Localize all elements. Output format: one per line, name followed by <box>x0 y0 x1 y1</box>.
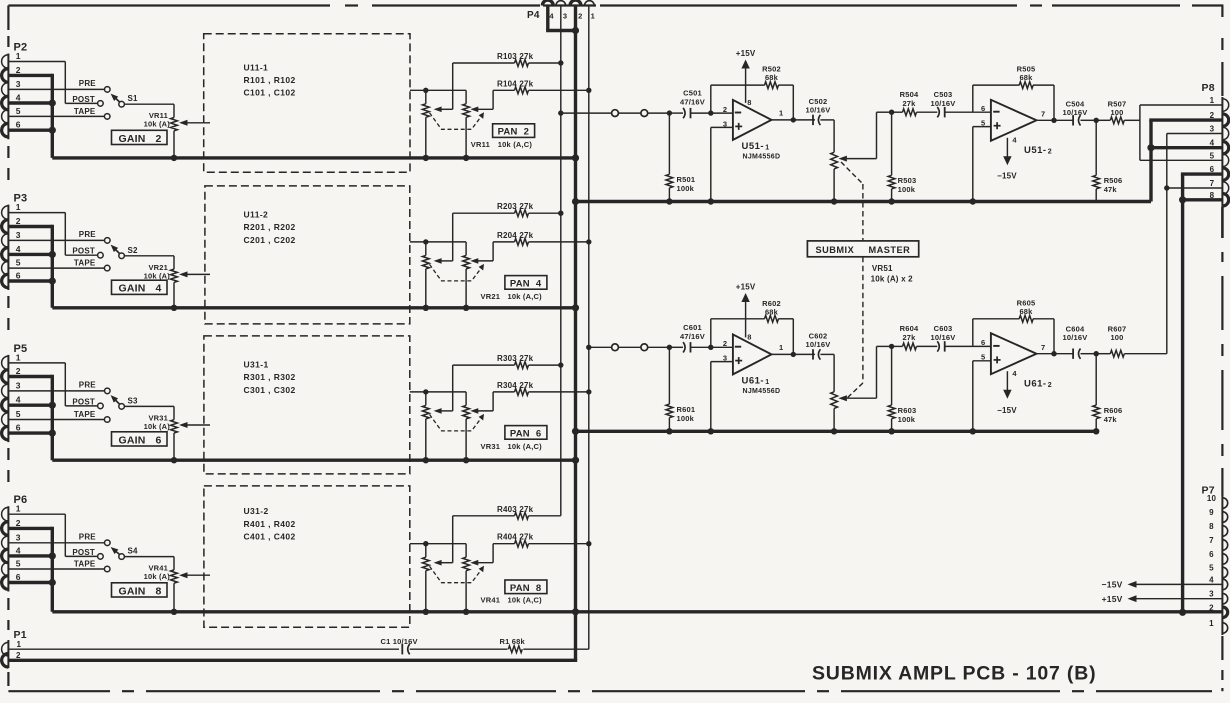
svg-text:U31-1: U31-1 <box>244 360 269 370</box>
label P7 pin 6 <box>1209 550 1214 559</box>
svg-text:100k: 100k <box>898 415 916 424</box>
label P8 pin 5 <box>1210 151 1215 160</box>
svg-text:6: 6 <box>981 104 985 113</box>
label C503 value <box>931 99 956 108</box>
node U51-1 output <box>791 117 796 122</box>
svg-text:TAPE: TAPE <box>74 259 96 268</box>
label U61-1 part no. <box>743 388 781 395</box>
label R301 , R302 <box>244 372 296 382</box>
svg-text:6: 6 <box>1209 550 1214 559</box>
svg-text:2: 2 <box>524 127 529 138</box>
svg-text:10/16V: 10/16V <box>806 340 831 349</box>
svg-text:SUBMIX: SUBMIX <box>816 245 855 255</box>
svg-text:4: 4 <box>16 93 21 103</box>
junction pan pot1 / ch1 ground bus <box>423 155 429 161</box>
border right (dash-dot) <box>1221 6 1223 692</box>
capacitor C602 10/16V <box>813 349 834 359</box>
wire stage1 ground bus <box>576 200 1152 203</box>
label C501 <box>683 89 702 98</box>
label U61-1 pin 1 <box>779 343 783 352</box>
svg-text:47/16V: 47/16V <box>680 98 705 107</box>
wire P5 pin5 to TAPE contact <box>8 419 104 421</box>
junction P4 pin4/ground bus <box>572 27 579 34</box>
capacitor C503 10/16V <box>937 107 991 117</box>
label GAIN 8 box <box>112 583 168 598</box>
label P8 pin 7 <box>1210 179 1215 188</box>
junction R501 / ground <box>666 198 672 204</box>
svg-text:6: 6 <box>1210 165 1215 174</box>
label P6 pin 4 <box>16 545 21 555</box>
junction R503 / ground <box>888 198 894 204</box>
label R604 value <box>902 333 916 342</box>
wire P2 pin3 to PRE contact <box>8 88 104 90</box>
junction pan pot2 / ch4 ground bus <box>463 609 469 615</box>
svg-text:R201 , R202: R201 , R202 <box>244 222 296 232</box>
svg-text:R203 27k: R203 27k <box>497 202 534 211</box>
label U51-2 plus <box>994 122 1001 129</box>
label -15V stage1 <box>997 172 1017 181</box>
svg-text:C603: C603 <box>934 324 953 333</box>
label C504 value <box>1063 108 1088 117</box>
wire S1 pole to VR11 <box>124 104 174 117</box>
switch S4 TAPE contact <box>104 566 110 572</box>
wire P2 pin1 to POST contact <box>8 62 97 104</box>
svg-text:8: 8 <box>536 583 541 594</box>
label U31-1 <box>244 360 269 370</box>
svg-text:5: 5 <box>16 559 21 569</box>
junction VR31 / ch3 ground bus <box>171 457 177 463</box>
switch S2 blade <box>111 245 120 254</box>
label P1 pin 1 <box>17 640 22 649</box>
resistor R304 27k <box>475 389 589 411</box>
svg-text:C201 , C202: C201 , C202 <box>244 235 296 245</box>
svg-text:PAN: PAN <box>510 278 530 289</box>
wire stage1 node to pin2 <box>711 112 733 114</box>
gang line VR21 (dashed) <box>430 264 485 281</box>
label PAN 2 box <box>493 124 535 138</box>
connector P2 <box>2 54 9 140</box>
svg-text:TAPE: TAPE <box>74 107 96 116</box>
resistor R601 100k <box>666 347 673 431</box>
label -15V P7 <box>1102 580 1123 590</box>
label PRE ch1 <box>79 79 97 88</box>
label C1 value <box>381 637 418 646</box>
wire P2 pin5 to TAPE contact <box>8 115 104 117</box>
svg-text:R104 27k: R104 27k <box>497 79 534 88</box>
resistor R506 47k <box>1093 120 1100 201</box>
svg-text:POST: POST <box>72 247 95 256</box>
label S3 <box>128 396 139 405</box>
switch S4 blade <box>111 547 120 555</box>
svg-text:1: 1 <box>17 640 22 649</box>
svg-text:R103 27k: R103 27k <box>497 52 534 61</box>
wire P7 pin4 -15V <box>1128 581 1223 588</box>
junction pan pot1 / ch3 ground bus <box>423 457 429 463</box>
svg-text:VR51: VR51 <box>872 264 893 273</box>
svg-text:S3: S3 <box>128 396 139 405</box>
label R605 <box>1017 299 1036 308</box>
label U61-1 <box>742 375 765 386</box>
junction left bus / stage1 input <box>558 110 563 115</box>
svg-text:4: 4 <box>16 395 21 405</box>
svg-text:2: 2 <box>1209 603 1214 612</box>
wire stage2 input from bus <box>589 346 670 348</box>
label +15V stage1 <box>736 49 756 58</box>
svg-text:U61-: U61- <box>1024 379 1047 390</box>
svg-text:5: 5 <box>1210 151 1215 160</box>
label R602 value <box>765 307 779 316</box>
junction VR41 / ch4 ground bus <box>171 609 177 615</box>
label U51-1 suffix <box>765 144 769 151</box>
svg-text:10k (A): 10k (A) <box>144 271 171 280</box>
label U61-2 pin 7 <box>1041 343 1045 352</box>
svg-text:4: 4 <box>16 244 21 254</box>
label VR41 <box>148 564 168 573</box>
svg-text:68k: 68k <box>765 307 779 316</box>
label R601 <box>677 405 696 414</box>
svg-text:PRE: PRE <box>79 381 97 390</box>
svg-text:S1: S1 <box>128 94 139 103</box>
switch S1 pole <box>119 101 125 107</box>
junction P8 ground riser / bottom bus <box>1179 609 1186 616</box>
label POST ch4 <box>72 548 95 557</box>
svg-text:1: 1 <box>779 343 783 352</box>
label U51-2 minus <box>993 111 999 113</box>
svg-text:R1 68k: R1 68k <box>500 637 526 646</box>
resistor R404 27k <box>475 540 589 562</box>
potentiometer VR21 section B (pan right) <box>463 242 479 308</box>
junction U51-1 pin3 / ground <box>708 198 714 204</box>
svg-text:+15V: +15V <box>1102 594 1123 604</box>
label P6 pin 6 <box>16 572 21 582</box>
svg-text:6: 6 <box>16 423 21 433</box>
label P5 pin 5 <box>16 409 21 419</box>
wire ch1 pan input <box>410 89 466 91</box>
capacitor C1 10/16V <box>402 644 507 654</box>
junction pan pot2 / ch1 ground bus <box>463 155 469 161</box>
label U51-1 pin 2 <box>723 105 727 114</box>
wire left mix bus (P4 pin 3) <box>560 6 562 516</box>
switch S4 pole <box>119 554 125 560</box>
svg-text:2: 2 <box>578 12 582 21</box>
label P8 pin 1 <box>1210 96 1215 105</box>
svg-text:2: 2 <box>723 105 727 114</box>
label U11-2 <box>244 210 269 220</box>
junction R303 / left bus <box>558 362 563 367</box>
label R303 27k <box>497 354 534 363</box>
svg-text:R304 27k: R304 27k <box>497 381 534 390</box>
svg-text:10/16V: 10/16V <box>931 333 956 342</box>
junction P8 pin8 branch <box>1179 196 1186 203</box>
svg-text:PRE: PRE <box>79 230 97 239</box>
resistor R204 27k <box>475 239 589 261</box>
svg-text:7: 7 <box>1209 536 1214 545</box>
label P2 pin 4 <box>16 93 21 103</box>
label P8 pin 6 <box>1210 165 1215 174</box>
potentiometer VR11 section A (pan left) <box>422 90 452 158</box>
gang line VR41 (dashed) <box>430 566 485 583</box>
label R505 value <box>1019 73 1033 82</box>
svg-text:3: 3 <box>563 12 567 21</box>
label P7 pin 2 <box>1209 603 1214 612</box>
svg-text:8: 8 <box>1209 522 1214 531</box>
node U51-2 output <box>1051 118 1056 123</box>
junction R304 / right bus <box>586 389 591 394</box>
svg-text:1: 1 <box>779 108 783 117</box>
label R104 27k <box>497 79 534 88</box>
label P3 pin 5 <box>16 258 21 268</box>
junction P2 pin6 / ground jog <box>49 127 56 134</box>
svg-text:4: 4 <box>16 545 21 555</box>
label GAIN 2 box <box>112 130 168 145</box>
wire S3 pole to VR31 <box>124 406 174 419</box>
label POST ch1 <box>72 95 95 104</box>
svg-text:8: 8 <box>1210 191 1215 200</box>
wire stage2 node to pin2 <box>711 346 733 348</box>
connector P7 <box>1222 496 1227 635</box>
junction pan pot1 / ch4 ground bus <box>423 609 429 615</box>
label P8 <box>1202 82 1215 94</box>
label VR11 pan value <box>471 140 533 149</box>
junction ch4 ground bus / main ground <box>572 608 579 615</box>
node U61-2 output <box>1051 351 1056 356</box>
svg-text:NJM4556D: NJM4556D <box>743 388 781 395</box>
svg-text:3: 3 <box>1209 590 1214 599</box>
power -15V stage2 <box>1003 371 1011 399</box>
label R201 , R202 <box>244 222 296 232</box>
svg-text:47k: 47k <box>1104 185 1118 194</box>
svg-text:3: 3 <box>16 230 21 240</box>
label -15V stage2 <box>997 406 1017 415</box>
wire VR51 stage1 wiper to R504 <box>847 112 892 158</box>
svg-text:2: 2 <box>16 216 21 226</box>
svg-text:10/16V: 10/16V <box>1063 333 1088 342</box>
label U61-2 pin 5 <box>981 353 985 362</box>
label C101 , C102 <box>244 88 296 98</box>
label R502 value <box>765 73 779 82</box>
potentiometer VR51 section stage1 <box>831 120 847 202</box>
svg-text:VR21: VR21 <box>481 292 501 301</box>
label TAPE ch3 <box>74 410 96 419</box>
label C301 , C302 <box>244 385 296 395</box>
svg-text:6: 6 <box>156 434 162 446</box>
junction pan pot2 / ch3 ground bus <box>463 457 469 463</box>
label P2 pin 2 <box>16 65 21 75</box>
switch S3 TAPE contact <box>104 417 110 423</box>
wire P6 pin3 to PRE contact <box>8 542 104 544</box>
svg-text:27k: 27k <box>902 99 916 108</box>
svg-text:1: 1 <box>16 352 21 362</box>
potentiometer VR41 section B (pan right) <box>463 544 479 612</box>
label C504 <box>1066 100 1085 109</box>
svg-text:100k: 100k <box>898 185 916 194</box>
svg-text:1: 1 <box>16 202 21 212</box>
svg-text:C401 , C402: C401 , C402 <box>244 531 296 541</box>
svg-text:R101 , R102: R101 , R102 <box>244 75 296 85</box>
svg-text:R604: R604 <box>900 324 919 333</box>
connector P8 <box>1222 97 1228 207</box>
junction VR11 / ch1 ground bus <box>171 155 177 161</box>
label P4 pin 4 <box>549 12 554 21</box>
label P8 pin 3 <box>1210 125 1215 134</box>
capacitor C502 10/16V <box>813 115 834 125</box>
svg-text:6: 6 <box>981 338 985 347</box>
svg-text:7: 7 <box>1041 343 1045 352</box>
border bottom (dash-dot) <box>8 690 1212 692</box>
gang line VR51 (dashed) <box>841 162 863 400</box>
label PRE ch4 <box>79 533 97 542</box>
wire ch2 ground bus <box>52 306 577 309</box>
potentiometer VR41 section A (pan left) <box>422 544 452 612</box>
junction R104 / right bus <box>586 88 591 93</box>
label PAN 6 box <box>505 426 547 440</box>
svg-text:2: 2 <box>16 518 21 528</box>
svg-text:5: 5 <box>16 106 21 116</box>
svg-text:PRE: PRE <box>79 79 97 88</box>
svg-text:C1 10/16V: C1 10/16V <box>381 637 418 646</box>
label R602 <box>762 299 781 308</box>
svg-text:10k (A): 10k (A) <box>144 422 171 431</box>
label U61-1 minus <box>735 346 741 348</box>
block U11-1 (dashed box) <box>204 34 410 173</box>
svg-text:4: 4 <box>1012 369 1017 378</box>
label R603 <box>898 406 917 415</box>
wire ch2 pan input <box>410 241 466 243</box>
wire P6 pins 2,4,6 ground jog <box>8 527 52 612</box>
svg-text:−15V: −15V <box>997 172 1017 181</box>
wire VR51 stage2 wiper to R604 <box>847 346 892 398</box>
resistor R504 27k <box>892 109 938 116</box>
junction U61-2 pin5 / ground <box>970 428 976 434</box>
label P4 <box>527 10 540 21</box>
label TAPE ch1 <box>74 107 96 116</box>
wire ch4 pan input <box>410 543 466 545</box>
svg-text:PAN: PAN <box>510 583 530 594</box>
label U61-1 pin 3 <box>723 354 727 363</box>
wire stage2 input to C601 <box>669 346 683 348</box>
label R502 <box>762 65 781 74</box>
wire U51-2 pin5 to ground <box>973 127 991 202</box>
label P6 pin 2 <box>16 518 21 528</box>
wire P2 pins 2,4,6 ground jog <box>8 74 52 158</box>
label U51-2 pin 5 <box>981 119 985 128</box>
wire U51-1 pin3 to ground <box>711 127 733 201</box>
svg-text:R603: R603 <box>898 406 917 415</box>
power +15V stage1 <box>741 60 749 103</box>
label +15V P7 <box>1102 594 1123 604</box>
label C401 , C402 <box>244 531 296 541</box>
svg-text:R401 , R402: R401 , R402 <box>244 519 296 529</box>
label title SUBMIX AMPL PCB-107 (B) <box>812 663 1096 685</box>
wire U51-1 output <box>772 119 816 121</box>
svg-text:VR31: VR31 <box>481 442 501 451</box>
label P5 pin 2 <box>16 366 21 376</box>
svg-text:100k: 100k <box>677 184 695 193</box>
junction VR51 stage2 / ground <box>831 428 837 434</box>
label P2 <box>14 42 28 54</box>
svg-text:P8: P8 <box>1202 82 1215 94</box>
label U51-2 suffix <box>1048 149 1052 156</box>
svg-text:1: 1 <box>16 51 21 61</box>
label C601 <box>683 323 702 332</box>
block U31-2 (dashed box) <box>204 486 410 627</box>
op-amp U51-1 <box>733 100 772 140</box>
wire R607 output to P8 pins 3,7 <box>1167 134 1223 354</box>
block U11-2 (dashed box) <box>205 186 410 324</box>
junction P2 pin4 / ground jog <box>49 99 56 106</box>
svg-text:10k (A,C): 10k (A,C) <box>508 292 543 301</box>
svg-text:1: 1 <box>765 379 769 386</box>
label R304 27k <box>497 381 534 390</box>
svg-text:1: 1 <box>1209 619 1214 628</box>
label P5 pin 4 <box>16 395 21 405</box>
svg-text:+15V: +15V <box>736 283 756 292</box>
svg-text:C501: C501 <box>683 89 702 98</box>
label P1 <box>14 629 27 641</box>
svg-text:2: 2 <box>16 366 21 376</box>
junction ch2 ground bus / main ground <box>572 304 579 311</box>
switch S3 POST contact <box>98 403 104 409</box>
label U51-1 pin 8 <box>747 98 751 107</box>
label S1 <box>128 94 139 103</box>
gang line VR11 (dashed) <box>430 112 485 129</box>
label VR11 value <box>144 120 171 129</box>
wire U61-1 pin3 to ground <box>711 362 733 432</box>
wire P7 pin3 +15V <box>1128 595 1223 602</box>
label R606 <box>1104 406 1123 415</box>
op-amp U61-2 <box>991 333 1037 374</box>
capacitor C604 10/16V <box>1073 349 1096 359</box>
label U61-2 pin 4 <box>1012 369 1017 378</box>
label C604 value <box>1063 333 1088 342</box>
label R601 value <box>677 414 695 423</box>
label TAPE ch4 <box>74 559 96 568</box>
label P7 pin 3 <box>1209 590 1214 599</box>
op-amp U51-2 <box>991 100 1037 141</box>
connector P3 <box>2 205 9 290</box>
svg-text:10k (A,C): 10k (A,C) <box>498 140 533 149</box>
svg-text:7: 7 <box>1041 110 1045 119</box>
potentiometer VR31 10k(A) <box>171 420 210 461</box>
label P7 pin 9 <box>1209 508 1214 517</box>
wire ch1 ground bus <box>52 156 577 159</box>
junction R203 / left bus <box>558 211 563 216</box>
label U61-2 pin 6 <box>981 338 985 347</box>
label VR41 pan value <box>481 596 543 605</box>
potentiometer VR31 section B (pan right) <box>463 392 479 460</box>
label C601 value <box>680 332 705 341</box>
junction right bus / stage2 input <box>586 345 591 350</box>
label VR51 value <box>871 275 914 284</box>
resistor R603 100k <box>888 346 895 431</box>
wire P4 pin4 jog to ground bus <box>546 6 575 31</box>
wire ground to P8 pins 6,8 and bottom bus <box>1181 174 1223 612</box>
label P2 pin 6 <box>16 120 21 130</box>
svg-text:MASTER: MASTER <box>869 245 911 255</box>
svg-text:47k: 47k <box>1104 415 1118 424</box>
label P6 pin 3 <box>16 532 21 542</box>
resistor R607 <box>1096 350 1167 357</box>
label P6 pin 1 <box>16 504 21 514</box>
junction ch3 ground bus / main ground <box>572 457 579 464</box>
node stage1 inverting input <box>708 110 713 115</box>
label TAPE ch2 <box>74 259 96 268</box>
node C504/R506/R507 <box>1094 118 1099 123</box>
wire P3 pin5 to TAPE contact <box>8 267 104 269</box>
svg-text:5: 5 <box>16 258 21 268</box>
label R503 <box>898 176 917 185</box>
label VR51 <box>872 264 893 273</box>
